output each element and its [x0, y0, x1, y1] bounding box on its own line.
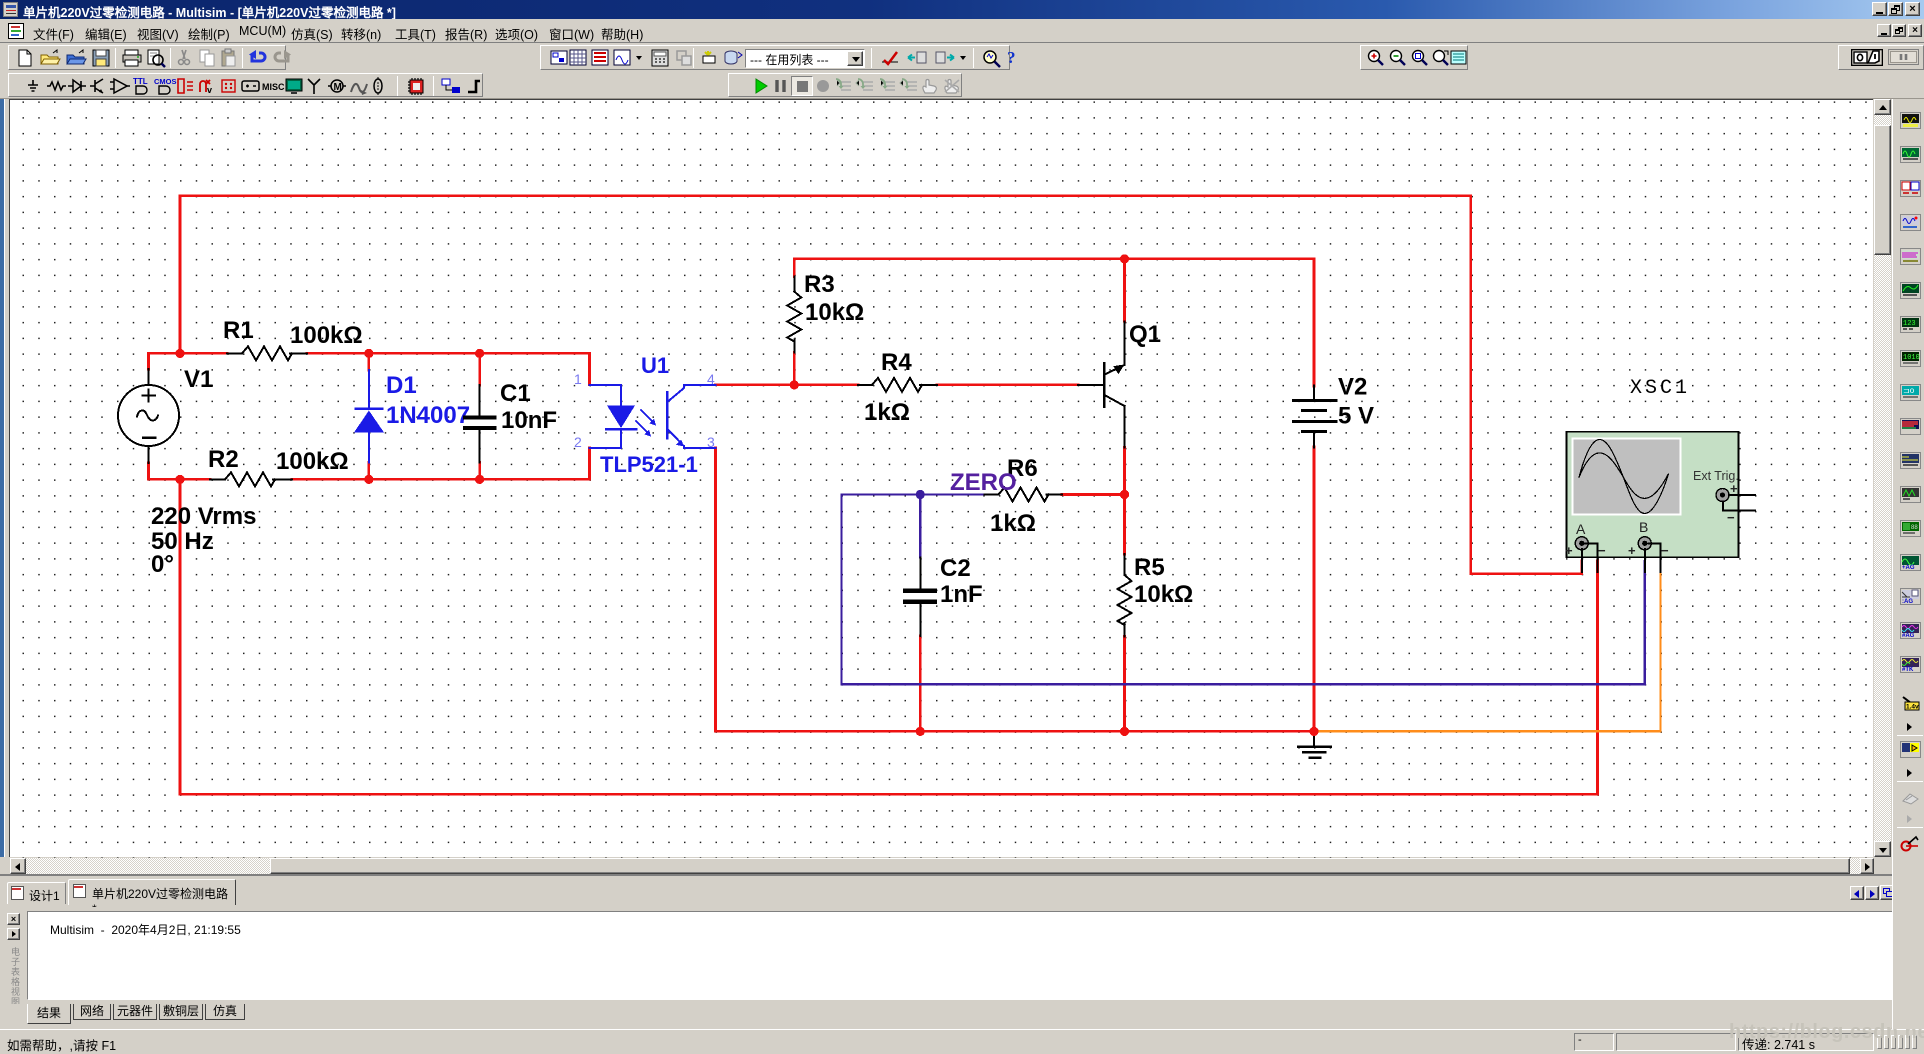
- svg-text:−: −: [1727, 510, 1735, 525]
- U1 emission arrows: [641, 410, 654, 423]
- transistor Q1: [1078, 384, 1103, 386]
- wire ZERO purple net to scope B+: [842, 495, 1645, 685]
- diode D1 1N4007: [368, 370, 370, 409]
- svg-text:123: 123: [1903, 320, 1916, 328]
- ground: [1313, 731, 1315, 746]
- svg-text:A: A: [1576, 521, 1586, 537]
- junction dots: [175, 349, 184, 358]
- wire R6 right segment: [1062, 493, 1125, 496]
- svg-text:10nF: 10nF: [501, 407, 557, 434]
- svg-text:1: 1: [574, 371, 582, 387]
- wire C1 stubs: [478, 353, 481, 385]
- svg-text:10kΩ: 10kΩ: [805, 299, 864, 326]
- oscilloscope XSC1 icon: [1567, 432, 1739, 558]
- svg-text:v: v: [207, 85, 212, 95]
- resistor R5 10k: [1124, 554, 1126, 575]
- scope terminal A: [1575, 537, 1588, 550]
- svg-text:−: −: [1598, 543, 1606, 558]
- svg-text:1nF: 1nF: [940, 581, 983, 608]
- resistor R6 1k + net ZERO: [985, 494, 999, 496]
- scope A+ stub: [1581, 549, 1583, 572]
- svg-text:XSC1: XSC1: [1630, 377, 1690, 400]
- svg-text:4: 4: [707, 371, 715, 387]
- svg-text:10kΩ: 10kΩ: [1134, 581, 1193, 608]
- svg-text:MISC: MISC: [262, 82, 285, 92]
- svg-text:R2: R2: [208, 446, 239, 473]
- svg-text:100kΩ: 100kΩ: [290, 322, 363, 349]
- svg-text:3: 3: [707, 434, 715, 450]
- svg-text:C2: C2: [940, 555, 971, 582]
- wire bottom outer 220V loop: [180, 561, 1598, 794]
- svg-text:V1: V1: [184, 366, 213, 393]
- svg-text:1.4v: 1.4v: [1906, 704, 1919, 711]
- svg-text:#TK: #TK: [1902, 667, 1914, 673]
- source V1 AC 220Vrms: [148, 369, 150, 385]
- wire R4 row: [794, 384, 858, 387]
- wire R5 stubs: [1123, 495, 1126, 555]
- scope B+ stub: [1644, 549, 1646, 572]
- svg-text:88: 88: [1911, 525, 1918, 531]
- svg-text:−: −: [1661, 543, 1669, 558]
- svg-text:1kΩ: 1kΩ: [864, 399, 910, 426]
- wire V1 bottom branch: [147, 463, 150, 479]
- wire R1 row net: [149, 352, 228, 355]
- wire R2 row net: [149, 478, 211, 481]
- battery V2 5V: [1313, 386, 1315, 401]
- wire V1 top branch: [147, 353, 150, 369]
- scope waveform A: [1579, 440, 1668, 514]
- wire 5V top rail: [794, 258, 1314, 261]
- svg-text:R1: R1: [223, 317, 254, 344]
- wire V2 branch: [1313, 259, 1316, 386]
- wire top outer 220V loop: [180, 196, 1582, 574]
- resistor R1 100k: [227, 352, 242, 354]
- svg-text:D1: D1: [386, 372, 417, 399]
- svg-text:220 Vrms: 220 Vrms: [151, 503, 256, 530]
- wire C2 bottom stub: [919, 636, 922, 731]
- svg-text:Q1: Q1: [1129, 321, 1161, 348]
- wire C2 top purple stub: [919, 495, 921, 558]
- svg-text:+: +: [1565, 543, 1573, 558]
- wire R3 stubs: [793, 259, 796, 277]
- watermark: [1729, 1021, 1924, 1045]
- svg-text:R4: R4: [881, 349, 912, 376]
- svg-text:1N4007: 1N4007: [386, 402, 470, 429]
- svg-text:ZERO: ZERO: [950, 469, 1017, 496]
- capacitor C2 1nF: [919, 558, 921, 590]
- svg-text::AG: :AG: [1902, 599, 1913, 605]
- svg-text:2: 2: [574, 434, 582, 450]
- wire U1 pin3 down to bottom rail: [716, 448, 1315, 732]
- optocoupler U1 TLP521-1: [590, 385, 622, 405]
- resistor R2 100k: [210, 478, 225, 480]
- svg-text:+AG: +AG: [1902, 565, 1915, 571]
- junction dot ZERO/C2 purple: [916, 490, 925, 499]
- scope terminal ExtTrig: [1716, 489, 1729, 502]
- scope ExtTrig stub wires: [1729, 494, 1755, 496]
- capacitor C1 10nF: [479, 385, 481, 416]
- svg-text:U1: U1: [641, 353, 669, 378]
- svg-text:100kΩ: 100kΩ: [276, 448, 349, 475]
- wire D1 stubs: [368, 353, 371, 370]
- svg-text:TTL: TTL: [133, 77, 148, 86]
- resistor R4 1k: [858, 384, 872, 386]
- svg-text:R3: R3: [804, 271, 835, 298]
- wire U1 pin4 to node: [716, 384, 795, 387]
- resistor R3 10k: [793, 277, 795, 292]
- svg-text:R5: R5: [1134, 554, 1165, 581]
- svg-text:1kΩ: 1kΩ: [990, 510, 1036, 537]
- svg-text:5 V: 5 V: [1338, 403, 1374, 430]
- svg-text:0°: 0°: [151, 551, 174, 578]
- scope B- stub: [1649, 543, 1661, 572]
- wire Q1 emitter stub to ZERO node: [1123, 447, 1126, 494]
- svg-text:C1: C1: [500, 380, 531, 407]
- wire Q1 collector stub: [1123, 259, 1126, 322]
- scope terminal B: [1638, 537, 1651, 550]
- svg-text:B: B: [1639, 519, 1648, 535]
- svg-text:+: +: [1628, 543, 1636, 558]
- scope waveform B: [1579, 453, 1668, 499]
- svg-text:⊐o: ⊐o: [1903, 386, 1915, 395]
- wire ground orange net to scope B-: [1314, 561, 1661, 731]
- svg-text:M: M: [334, 82, 342, 93]
- svg-text:TLP521-1: TLP521-1: [600, 452, 698, 477]
- svg-text:1010: 1010: [1903, 354, 1920, 362]
- svg-text:+: +: [1730, 481, 1738, 496]
- svg-text:#AG: #AG: [1902, 633, 1915, 639]
- svg-text:V2: V2: [1338, 374, 1367, 401]
- scope A- stub: [1585, 543, 1598, 572]
- U1 phototransistor: [666, 392, 669, 438]
